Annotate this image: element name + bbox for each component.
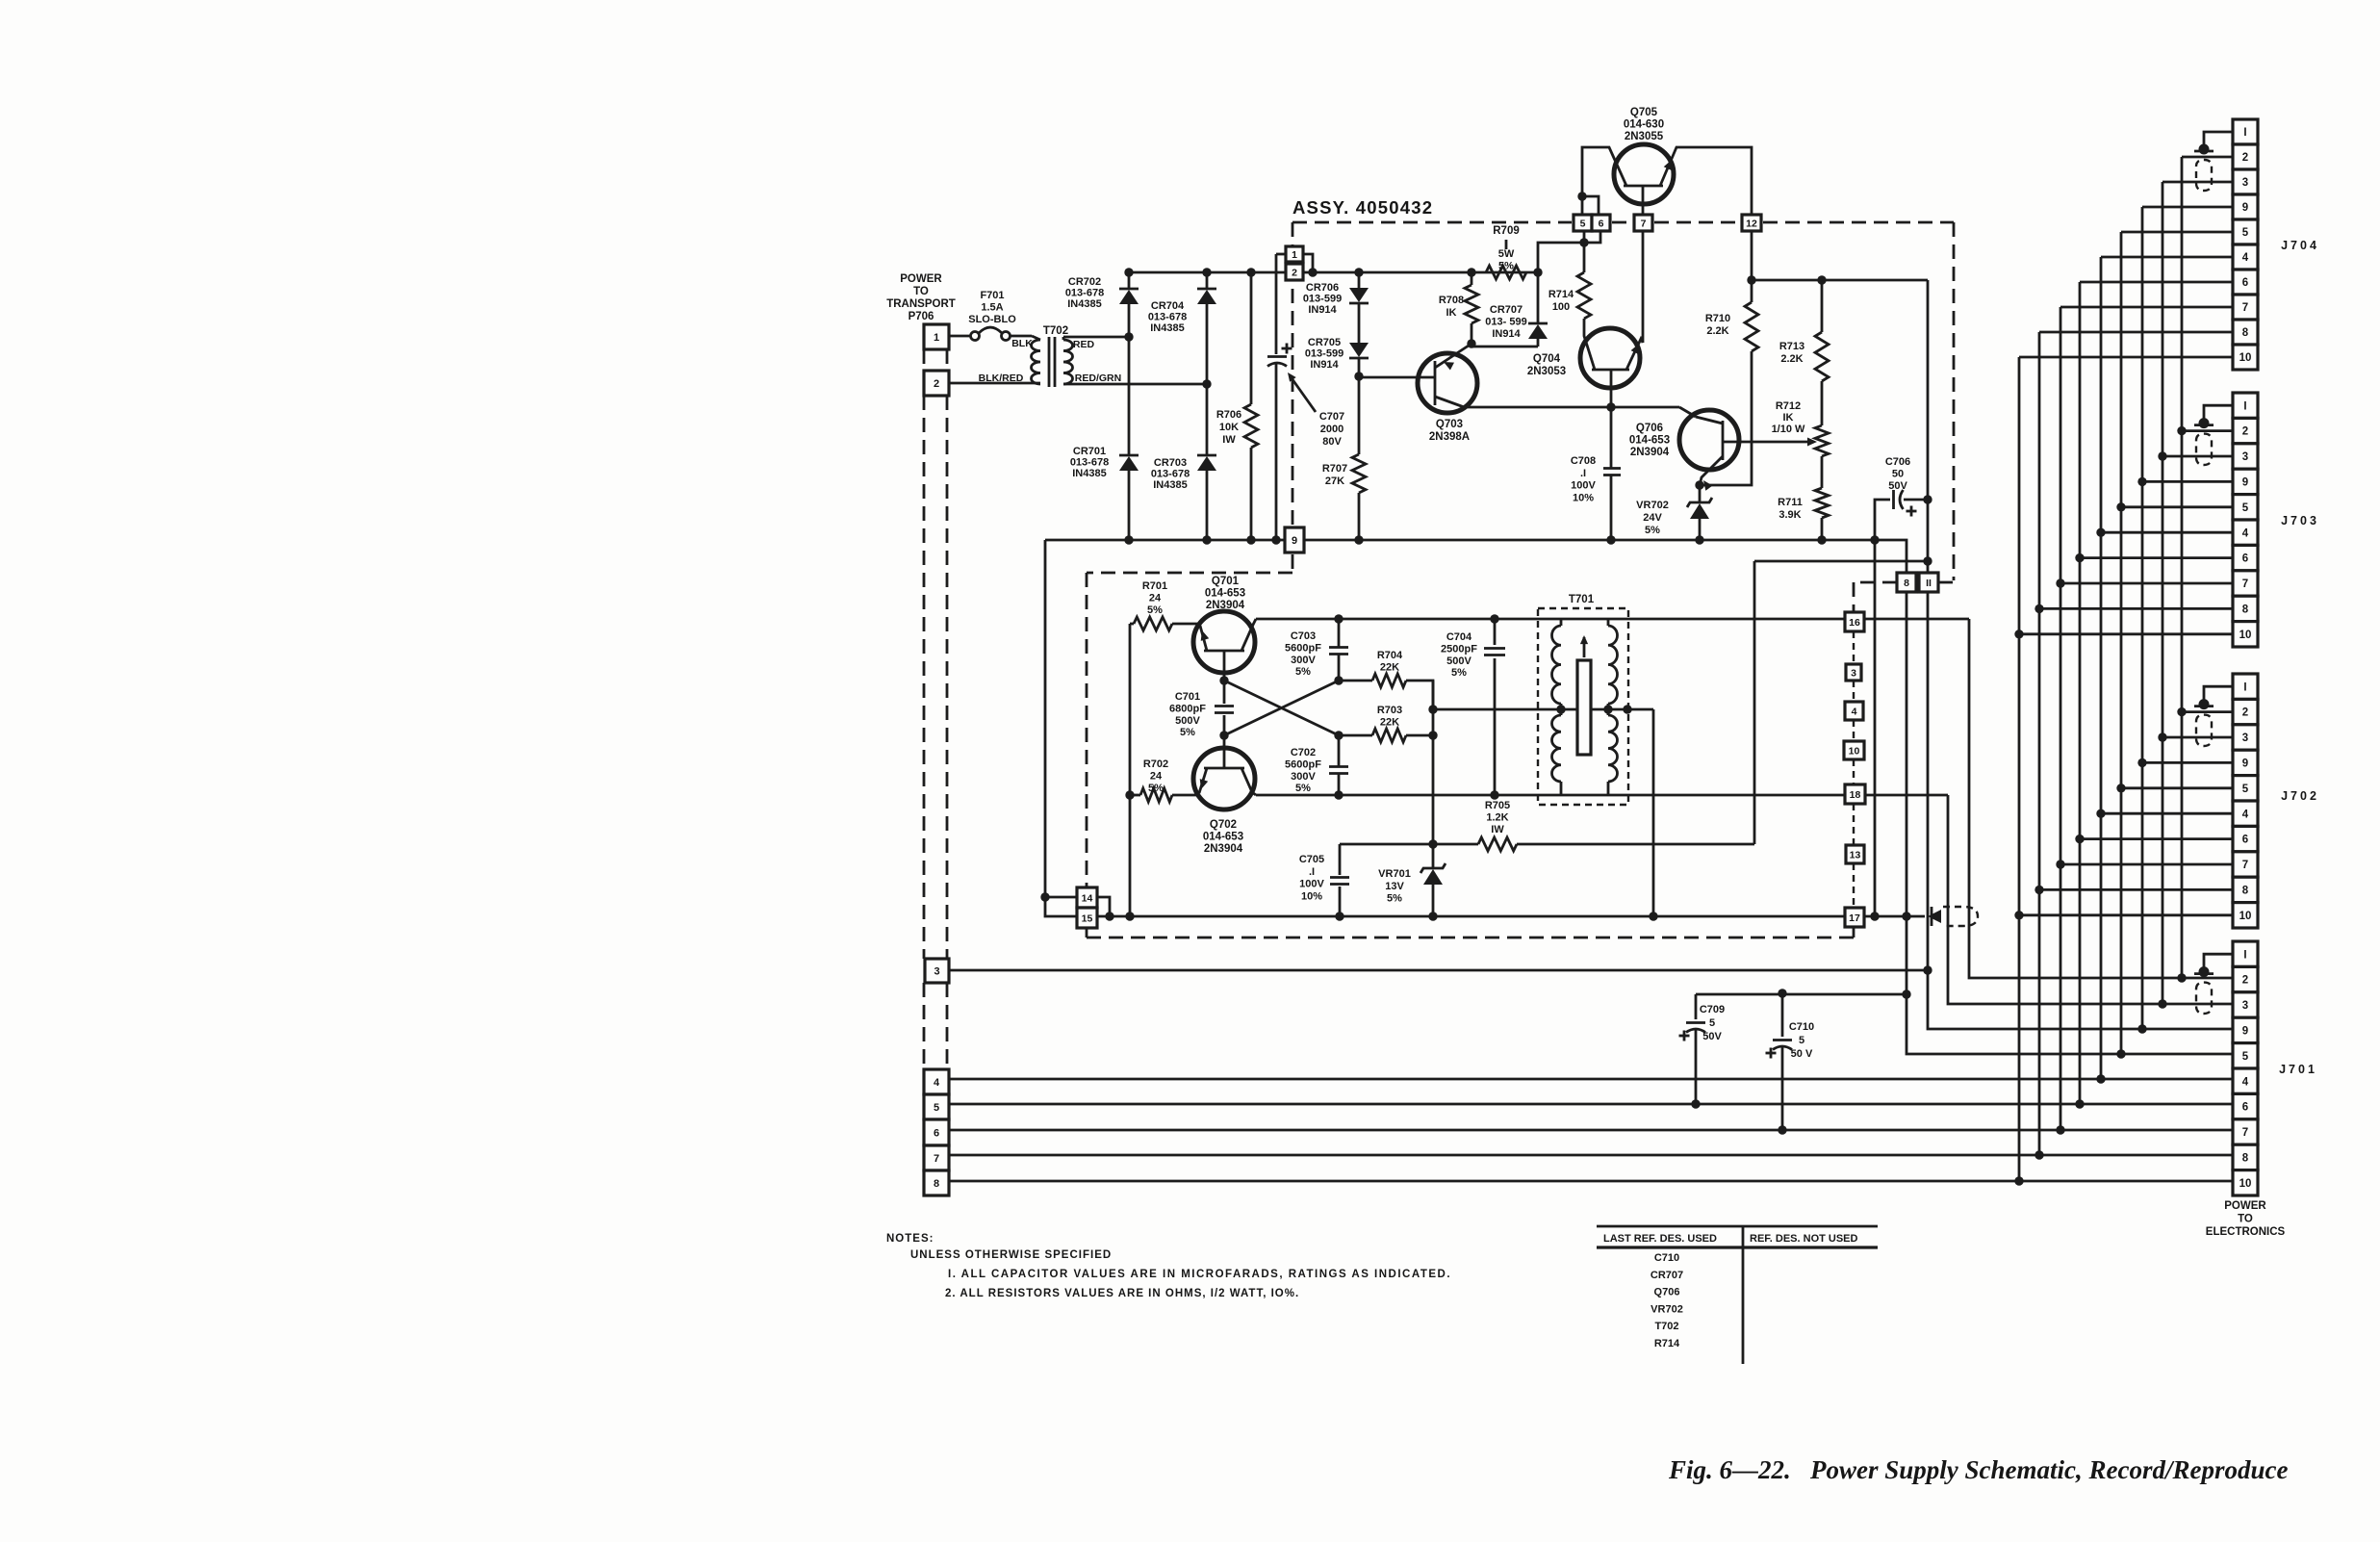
resistor R709 <box>1486 225 1543 279</box>
resistor R702 <box>1125 758 1199 802</box>
svg-text:C703: C703 <box>1291 630 1316 642</box>
svg-text:I: I <box>2243 127 2246 139</box>
svg-text:R702: R702 <box>1143 758 1168 770</box>
svg-text:Q701: Q701 <box>1212 576 1240 587</box>
svg-text:16: 16 <box>1849 617 1860 629</box>
assy pin 16 <box>1845 612 1864 631</box>
svg-text:C709: C709 <box>1700 1004 1725 1015</box>
svg-text:4: 4 <box>1852 706 1857 717</box>
svg-text:2: 2 <box>934 378 939 390</box>
svg-text:100V: 100V <box>1571 480 1596 492</box>
svg-text:013-678: 013-678 <box>1151 468 1190 479</box>
svg-text:IN914: IN914 <box>1308 304 1337 316</box>
svg-text:5%: 5% <box>1147 604 1163 616</box>
svg-text:3: 3 <box>1851 667 1856 679</box>
zener diode VR701 <box>1378 844 1446 921</box>
svg-text:ASSY. 4050432: ASSY. 4050432 <box>1292 197 1433 218</box>
svg-text:BLK: BLK <box>1011 338 1033 349</box>
svg-text:REF. DES. NOT USED: REF. DES. NOT USED <box>1750 1233 1858 1245</box>
svg-text:1.5A: 1.5A <box>981 302 1003 314</box>
connector J701 pin 2 <box>2233 966 2258 991</box>
svg-text:CR701: CR701 <box>1073 446 1106 457</box>
connector J704 pin 1 <box>2233 119 2258 144</box>
wire P706 pin7 row <box>949 1150 2233 1159</box>
svg-text:5%: 5% <box>1295 666 1311 678</box>
svg-text:IN914: IN914 <box>1310 359 1339 371</box>
connector J703 pin 1 <box>2233 393 2258 418</box>
transistor Q702 <box>1193 735 1256 855</box>
assy pin 3 <box>1846 664 1861 681</box>
svg-text:CR703: CR703 <box>1154 457 1187 469</box>
wire P706 pin5 row <box>949 1099 2233 1108</box>
connector J703 pin 5 <box>2233 495 2258 520</box>
wire net8 to J701 pin5 <box>1902 592 2233 1059</box>
svg-text:R709: R709 <box>1493 225 1520 237</box>
lamp at J701 pins 1-2 <box>2194 954 2233 1014</box>
wire R705 to net11 <box>1753 561 1756 844</box>
resistor R714 <box>1548 243 1591 331</box>
transistor Q701 <box>1193 576 1256 681</box>
transistor Q705 <box>1577 107 1752 215</box>
wire bottom bus of rectifier <box>1045 535 1907 573</box>
svg-text:VR702: VR702 <box>1651 1303 1683 1315</box>
svg-text:22K: 22K <box>1380 717 1399 729</box>
svg-text:IK: IK <box>1783 412 1794 424</box>
svg-text:T702: T702 <box>1654 1321 1678 1332</box>
wire P706 pin4 row <box>949 1074 2233 1083</box>
svg-text:2. ALL RESISTORS VALUES ARE IN: 2. ALL RESISTORS VALUES ARE IN OHMS, I/2… <box>945 1288 1299 1299</box>
svg-text:CR704: CR704 <box>1151 300 1185 312</box>
svg-text:CR702: CR702 <box>1068 276 1101 288</box>
svg-text:15: 15 <box>1082 912 1093 924</box>
connector P706 pin 4 <box>924 1069 949 1094</box>
connector J704 pin 8 <box>2233 320 2258 345</box>
connector J703 pin 7 <box>2233 571 2258 596</box>
wire R709 to assy pins 5 6 <box>1538 231 1600 272</box>
connector J701 pin 4 <box>2233 1068 2258 1093</box>
svg-text:10K: 10K <box>1219 422 1239 433</box>
connector J703 pin 2 <box>2233 418 2258 443</box>
svg-text:2N3904: 2N3904 <box>1206 600 1245 611</box>
resistor R710 <box>1695 280 1758 490</box>
svg-text:R708: R708 <box>1439 295 1464 306</box>
connector P706 pin 2 <box>924 371 949 396</box>
svg-text:1/10 W: 1/10 W <box>1772 424 1805 435</box>
svg-text:24V: 24V <box>1643 512 1662 524</box>
svg-text:1.2K: 1.2K <box>1486 811 1508 823</box>
svg-text:3: 3 <box>2242 451 2248 463</box>
svg-text:5: 5 <box>934 1102 939 1114</box>
svg-text:8: 8 <box>2242 327 2249 339</box>
wire R701 R702 left rail <box>1125 624 1134 921</box>
assy pin 11 <box>1919 573 1938 592</box>
svg-text:POWER: POWER <box>2224 1200 2266 1212</box>
assy pin 17 <box>1845 908 1864 927</box>
svg-text:CR707: CR707 <box>1651 1270 1683 1281</box>
wire staircase verticals <box>2014 157 2186 1183</box>
connector P706 pin 1 <box>924 324 949 349</box>
assy pin 10 <box>1844 741 1864 759</box>
svg-text:R714: R714 <box>1654 1338 1680 1349</box>
svg-text:Q705: Q705 <box>1630 107 1658 118</box>
svg-text:IK: IK <box>1446 307 1457 319</box>
svg-text:8: 8 <box>1904 578 1909 589</box>
svg-text:14: 14 <box>1082 892 1093 904</box>
wire collector node y423 <box>1467 402 1696 417</box>
svg-text:C710: C710 <box>1789 1021 1814 1033</box>
wire top bus <box>1124 268 1538 276</box>
diode CR707 <box>1472 272 1548 347</box>
assy dashed border ASSY 4050432 <box>1087 197 1954 938</box>
assy pin 15 <box>1077 908 1097 938</box>
assy pin 18 <box>1845 784 1865 804</box>
svg-text:R714: R714 <box>1548 289 1574 300</box>
wire net16 to J701 pin2 <box>1969 619 2233 983</box>
svg-text:Q706: Q706 <box>1654 1287 1680 1298</box>
svg-text:13: 13 <box>1850 849 1861 861</box>
assy pin 2 <box>1286 264 1303 280</box>
connector J701 pin 10 <box>2233 1170 2258 1195</box>
capacitor C710 <box>1766 989 1815 1130</box>
svg-text:I: I <box>2243 681 2246 693</box>
svg-text:3: 3 <box>934 965 939 977</box>
svg-text:7: 7 <box>934 1153 939 1165</box>
capacitor C701 <box>1169 676 1234 739</box>
svg-text:6: 6 <box>2242 835 2248 846</box>
diode CR705 <box>1305 337 1369 381</box>
svg-text:10: 10 <box>1849 745 1860 757</box>
svg-text:2500pF: 2500pF <box>1441 643 1477 655</box>
connector J704 pin 4 <box>2233 244 2258 270</box>
connector J702 pin 1 <box>2233 674 2258 699</box>
diode CR701 <box>1070 337 1139 540</box>
svg-text:F701: F701 <box>980 290 1004 301</box>
svg-text:IN4385: IN4385 <box>1153 479 1187 491</box>
svg-text:R706: R706 <box>1216 409 1241 421</box>
svg-text:013-678: 013-678 <box>1065 287 1104 298</box>
svg-text:C704: C704 <box>1446 631 1472 643</box>
svg-text:RED: RED <box>1073 339 1095 350</box>
wire J703 pin rows <box>2019 431 2233 634</box>
capacitor C702 <box>1285 731 1348 799</box>
connector J704 pin 7 <box>2233 295 2258 320</box>
svg-text:013- 599: 013- 599 <box>1485 317 1526 328</box>
svg-text:5%: 5% <box>1451 667 1467 679</box>
svg-text:5: 5 <box>2242 784 2249 795</box>
connector J701 pin 5 <box>2233 1043 2258 1068</box>
svg-text:50: 50 <box>1892 468 1904 479</box>
wire oscillator emitter bus <box>1097 912 1925 920</box>
svg-text:5%: 5% <box>1387 893 1402 905</box>
capacitor C704 <box>1441 619 1505 795</box>
svg-text:I. ALL CAPACITOR VALUES ARE IN: I. ALL CAPACITOR VALUES ARE IN MICROFARA… <box>948 1269 1451 1280</box>
svg-text:10: 10 <box>2239 630 2252 641</box>
svg-text:8: 8 <box>2242 604 2249 616</box>
wire cross coupling <box>1224 681 1339 735</box>
resistor R701 <box>1130 580 1200 630</box>
svg-text:.I: .I <box>1309 866 1315 878</box>
wire transformer center taps <box>1428 705 1653 713</box>
connector J702 pin 8 <box>2233 877 2258 902</box>
assy pin 7 <box>1634 215 1652 231</box>
zener diode VR702 <box>1636 485 1712 540</box>
assy pin 8 <box>1897 573 1916 592</box>
svg-text:7: 7 <box>2242 302 2248 314</box>
svg-text:6: 6 <box>1599 218 1604 229</box>
wire Q702 collector rail <box>1256 790 1948 799</box>
svg-text:10: 10 <box>2239 911 2252 922</box>
assy pin 5 <box>1574 215 1592 231</box>
svg-text:TO: TO <box>2238 1214 2253 1225</box>
svg-text:TO: TO <box>913 286 929 297</box>
svg-text:R713: R713 <box>1779 341 1804 352</box>
svg-text:2.2K: 2.2K <box>1706 325 1728 337</box>
svg-text:R711: R711 <box>1778 497 1803 508</box>
svg-text:LAST REF. DES. USED: LAST REF. DES. USED <box>1603 1233 1717 1245</box>
assy pin 4 <box>1845 702 1863 720</box>
svg-text:1: 1 <box>1292 249 1297 261</box>
svg-text:CR707: CR707 <box>1490 304 1523 316</box>
svg-text:500V: 500V <box>1175 715 1200 727</box>
svg-text:J701: J701 <box>2279 1063 2317 1076</box>
svg-text:5: 5 <box>1709 1017 1715 1029</box>
svg-text:IW: IW <box>1491 824 1504 835</box>
svg-text:R701: R701 <box>1142 580 1167 592</box>
connector J704 pin 5 <box>2233 219 2258 244</box>
svg-text:18: 18 <box>1850 789 1861 801</box>
svg-text:2: 2 <box>2242 707 2248 719</box>
svg-text:24: 24 <box>1150 770 1163 782</box>
svg-text:3: 3 <box>2242 1000 2248 1012</box>
lamp at J704 pins 1-2 <box>2194 132 2233 191</box>
lamp at J703 pins 1-2 <box>2194 405 2233 465</box>
svg-text:J702: J702 <box>2281 789 2319 803</box>
svg-text:.I: .I <box>1580 468 1586 479</box>
wire net18 to J701 pin3 <box>1948 795 2233 1009</box>
svg-text:5600pF: 5600pF <box>1285 642 1321 654</box>
svg-text:013-678: 013-678 <box>1148 311 1187 322</box>
resistor R713 <box>1779 280 1829 425</box>
wire rectifier bus down to pin 14 <box>1040 540 1077 916</box>
connector J701 pin 1 <box>2233 941 2258 966</box>
diode CR702 <box>1065 272 1139 337</box>
svg-text:9: 9 <box>2242 202 2248 214</box>
connector J701 pin 7 <box>2233 1119 2258 1144</box>
svg-text:UNLESS OTHERWISE SPECIFIED: UNLESS OTHERWISE SPECIFIED <box>910 1249 1112 1261</box>
svg-text:9: 9 <box>2242 477 2248 489</box>
svg-text:80V: 80V <box>1322 436 1342 448</box>
resistor R704 <box>1339 650 1433 709</box>
svg-text:4: 4 <box>934 1077 940 1089</box>
svg-text:5%: 5% <box>1498 260 1514 271</box>
transistor Q706 <box>1629 410 1817 491</box>
connector P706 pin 8 <box>924 1170 949 1195</box>
lamp at pin 17 <box>1928 907 1978 926</box>
transistor Q703 <box>1359 344 1477 443</box>
svg-text:2: 2 <box>2242 975 2248 987</box>
svg-text:5%: 5% <box>1295 783 1311 794</box>
fuse F701 <box>949 290 1032 341</box>
svg-text:17: 17 <box>1849 912 1860 924</box>
svg-text:R705: R705 <box>1485 800 1510 811</box>
svg-text:2: 2 <box>2242 152 2248 164</box>
svg-text:4: 4 <box>2242 252 2249 264</box>
svg-text:27K: 27K <box>1325 475 1344 487</box>
svg-text:7: 7 <box>2242 860 2248 871</box>
svg-text:1: 1 <box>934 332 939 344</box>
wire P706 pin3 row <box>949 969 1928 972</box>
svg-text:014-653: 014-653 <box>1203 831 1243 842</box>
svg-text:10%: 10% <box>1301 890 1322 902</box>
svg-text:5600pF: 5600pF <box>1285 758 1321 770</box>
connector J703 pin 3 <box>2233 444 2258 469</box>
svg-text:50V: 50V <box>1888 480 1907 492</box>
svg-text:12: 12 <box>1746 218 1757 229</box>
connector J704 pin 3 <box>2233 169 2258 194</box>
connector J704 pin 6 <box>2233 270 2258 295</box>
svg-text:2N3904: 2N3904 <box>1204 843 1243 855</box>
svg-text:C701: C701 <box>1175 691 1200 703</box>
svg-text:3.9K: 3.9K <box>1779 509 1801 521</box>
svg-text:J704: J704 <box>2281 239 2319 252</box>
assy pin 12 <box>1742 215 1761 231</box>
capacitor C707 <box>1267 254 1344 540</box>
svg-text:2N398A: 2N398A <box>1429 431 1470 443</box>
svg-text:2N3904: 2N3904 <box>1630 447 1670 458</box>
connector P706 pin 6 <box>924 1119 949 1145</box>
connector P706 pin 5 <box>924 1094 949 1119</box>
transformer T701 <box>1538 594 1628 805</box>
svg-text:8: 8 <box>934 1178 939 1190</box>
connector J702 pin 7 <box>2233 852 2258 877</box>
svg-text:IN914: IN914 <box>1492 328 1521 340</box>
table LAST REF DES USED <box>1597 1226 1878 1364</box>
svg-text:R712: R712 <box>1776 400 1801 412</box>
connector P706 pin 7 <box>924 1145 949 1170</box>
potentiometer R712 <box>1772 400 1829 488</box>
connector J702 pin 5 <box>2233 776 2258 801</box>
svg-text:5: 5 <box>2242 502 2249 514</box>
wire C706 negative branch <box>1874 540 1877 916</box>
svg-text:P706: P706 <box>908 311 934 322</box>
resistor R705 <box>1340 800 1754 851</box>
svg-text:7: 7 <box>1641 218 1647 229</box>
resistor R707 <box>1322 376 1366 540</box>
wire box12 down bus <box>1747 231 1928 285</box>
assy pin 1 <box>1276 246 1313 272</box>
notes text <box>886 1233 1451 1299</box>
svg-text:5W: 5W <box>1498 248 1515 260</box>
connector J701 pin 6 <box>2233 1093 2258 1118</box>
svg-text:013-599: 013-599 <box>1303 293 1342 304</box>
connector J703 pin 6 <box>2233 545 2258 570</box>
lamp at J702 pins 1-2 <box>2194 686 2233 746</box>
capacitor C708 <box>1571 407 1621 540</box>
svg-text:10: 10 <box>2239 352 2252 364</box>
svg-text:4: 4 <box>2242 1076 2249 1088</box>
svg-text:100V: 100V <box>1299 879 1324 890</box>
svg-text:2: 2 <box>1292 267 1297 278</box>
wire J702 pin rows <box>2019 712 2233 915</box>
svg-text:10: 10 <box>2239 1178 2252 1190</box>
connector J702 pin 6 <box>2233 826 2258 851</box>
connector J702 pin 10 <box>2233 903 2258 928</box>
resistor R706 <box>1216 272 1258 540</box>
wire assy pin7 to Q704 emitter <box>1642 231 1645 343</box>
wire net11 to J701 pin9 <box>1923 592 2233 1034</box>
wire negative rail to caps <box>1696 993 1907 996</box>
wire P706 pin6 row <box>949 1125 2233 1134</box>
wire J704 pin rows and staircase <box>2019 157 2233 357</box>
connector J703 pin 8 <box>2233 596 2258 621</box>
assy dashed pin chain <box>1853 631 1855 908</box>
svg-text:8: 8 <box>2242 1153 2249 1165</box>
capacitor C705 <box>1299 844 1349 921</box>
transformer T702 <box>949 325 1073 387</box>
wire net11 vertical <box>1754 280 1932 573</box>
svg-text:Q704: Q704 <box>1533 353 1561 365</box>
connector P706 pin 3 <box>925 959 949 983</box>
connector J702 pin 3 <box>2233 725 2258 750</box>
svg-text:5: 5 <box>1580 218 1586 229</box>
assy pin 13 <box>1846 845 1864 863</box>
svg-text:014-653: 014-653 <box>1629 435 1670 447</box>
wire secondary RED/GRN <box>1063 379 1212 388</box>
wire secondary tap down <box>1649 709 1657 921</box>
svg-text:CR705: CR705 <box>1308 337 1341 348</box>
svg-text:6: 6 <box>2242 277 2248 289</box>
svg-text:TRANSPORT: TRANSPORT <box>886 298 956 310</box>
wire secondary RED <box>1063 332 1134 341</box>
diode CR704 <box>1148 272 1216 384</box>
svg-text:R707: R707 <box>1322 463 1347 475</box>
svg-text:9: 9 <box>2242 758 2248 770</box>
diode CR703 <box>1151 384 1216 540</box>
svg-text:300V: 300V <box>1291 771 1316 783</box>
svg-text:5: 5 <box>2242 1051 2249 1063</box>
connector J703 pin 9 <box>2233 469 2258 494</box>
svg-text:SLO-BLO: SLO-BLO <box>968 314 1016 325</box>
svg-text:500V: 500V <box>1446 655 1472 667</box>
connector J701 pin 9 <box>2233 1017 2258 1042</box>
svg-text:NOTES:: NOTES: <box>886 1233 934 1245</box>
svg-text:5%: 5% <box>1180 727 1195 738</box>
svg-text:6: 6 <box>2242 553 2248 565</box>
svg-text:13V: 13V <box>1385 881 1404 892</box>
svg-text:Q703: Q703 <box>1436 419 1463 430</box>
svg-text:4: 4 <box>2242 809 2249 820</box>
label POWER TO ELECTRONICS <box>2206 1200 2286 1238</box>
svg-text:IN4385: IN4385 <box>1067 298 1101 310</box>
svg-text:IN4385: IN4385 <box>1072 468 1106 479</box>
svg-text:100: 100 <box>1552 301 1570 313</box>
svg-text:IW: IW <box>1222 434 1236 446</box>
svg-text:5: 5 <box>2242 227 2249 239</box>
svg-text:014-653: 014-653 <box>1205 587 1245 599</box>
svg-text:RED/GRN: RED/GRN <box>1075 373 1121 384</box>
connector J702 pin 2 <box>2233 699 2258 724</box>
connector J704 pin 2 <box>2233 144 2258 169</box>
svg-text:T701: T701 <box>1569 594 1595 605</box>
svg-text:C702: C702 <box>1291 747 1316 758</box>
svg-text:7: 7 <box>2242 578 2248 590</box>
connector P706 dashed outline <box>924 349 947 1069</box>
svg-text:C708: C708 <box>1571 455 1596 467</box>
connector J701 pin 3 <box>2233 992 2258 1017</box>
connector J701 pin 8 <box>2233 1144 2258 1169</box>
svg-text:J703: J703 <box>2281 514 2319 527</box>
svg-text:I: I <box>2243 400 2246 412</box>
